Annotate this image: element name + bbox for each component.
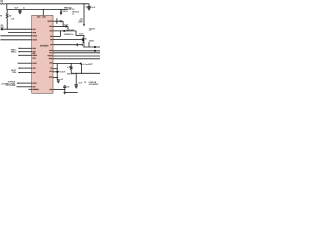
arrow to system load [83,24,85,26]
wire vertical stub [88,42,90,47]
wire top pin drop [43,9,44,10]
resistor R1 (divider from second rail) [6,10,8,14]
svg-text:CLN: CLN [11,19,15,21]
svg-text:x2: x2 [89,30,91,32]
capacitor series CB on BST wire [65,25,67,27]
wire vertical short rail [56,18,58,24]
node dot SW left [60,30,61,31]
svg-text:PINS: PINS [12,72,17,74]
part number U1 [40,45,48,47]
svg-text:4.7k: 4.7k [67,66,70,69]
label FAULT block [11,69,17,74]
wire pin 3 [0,35,31,37]
capacitor series on SW wire [63,30,65,32]
label TO SYSTEM LOAD [78,18,84,23]
capacitor series CSP [94,50,96,52]
wire to FET drain [76,35,84,37]
wire vertical right [81,64,83,74]
wire EQ pin [18,62,32,64]
wire BST drop [62,21,64,26]
capacitor CIN (input cap to gnd) [20,9,21,10]
wire vertical rail mid bottom [56,64,58,80]
wire SW pin [53,30,76,32]
svg-text:LTC4015: LTC4015 [40,44,49,47]
arrow long [18,82,32,84]
resistor RNTC vertical [70,64,72,66]
svg-text:0.47uF: 0.47uF [60,71,65,74]
svg-text:CIN 22uF: CIN 22uF [72,12,79,14]
svg-text:L1 3.3uH: L1 3.3uH [67,29,75,31]
node junction dot at top right corner [83,3,84,4]
svg-text:VOUT: VOUT [79,34,84,36]
wire pin 4 [0,39,31,41]
wire vertical from SW dot down [60,31,62,37]
wire elbow from VIN rail down to second rail [6,4,8,10]
wire TG gate [53,39,82,41]
ground (bottom right cap) [75,86,77,88]
wire DVCC pin [53,77,58,79]
svg-text:SNS: SNS [0,27,4,29]
svg-text:SMBus: SMBus [11,51,17,53]
svg-text:TO: TO [84,82,87,84]
wire SW elbow down to FET row [75,31,77,36]
svg-text:1uF: 1uF [60,79,63,81]
ground (top right) [88,8,91,10]
svg-text:1uF: 1uF [67,86,70,88]
arrow SCL [19,51,31,53]
svg-text:DONE 5B: DONE 5B [89,82,97,84]
svg-text:10uF: 10uF [14,8,18,10]
pin labels column right (smudges) [48,21,53,91]
diode D1 to ground [60,9,61,10]
svg-text:RSNSB 10m: RSNSB 10m [64,34,74,36]
wire BST cap to SW elbow [67,26,69,31]
svg-text:RSNS: RSNS [89,40,94,42]
svg-text:10uF: 10uF [78,83,82,85]
capacitor above gnd node [64,85,66,86]
svg-text:FOR BURST: FOR BURST [89,84,99,86]
wire sense top [83,46,84,47]
arrow charge current indicator [76,43,78,45]
svg-text:100k NTC: 100k NTC [67,74,75,76]
wire BG gate [53,44,82,46]
label SMBus block [11,50,17,54]
svg-text:SMBus: SMBus [11,50,17,52]
caption bottom right [89,82,99,86]
wire below [17,86,32,88]
arrow SDA [19,47,31,49]
wire CSP [53,50,100,52]
capacitor COUT top right [88,4,90,7]
node dots on rail [76,73,77,74]
label TO/FROM SYSTEM block [2,82,16,87]
svg-text:0.1uF: 0.1uF [64,25,68,27]
capacitor marks on NTC wire [79,63,81,65]
arrow SMBALERT [19,54,31,56]
wire INTVCC pin [53,20,60,22]
svg-text:FAULT: FAULT [11,69,16,72]
wire NTC [53,63,82,65]
svg-text:R1: R1 [0,16,2,18]
node dot FET drain [83,35,84,36]
wire corner down to system load arrow [83,4,85,25]
svg-text:OF SYSTEM: OF SYSTEM [6,85,16,87]
svg-text:TO/FROM: TO/FROM [8,82,16,84]
svg-text:x2: x2 [72,13,74,15]
capacitor bottom right to gnd [75,73,77,84]
transistor M2 gate mark [81,44,83,46]
capacitor series INTVCC [59,20,61,22]
wire pin at 36.4 [53,35,61,37]
wire GND pin stub [53,89,65,91]
transistor M1 body diode mark [83,42,84,43]
pin labels column left (smudges) [32,16,45,90]
ground (input cap) [19,12,21,14]
wire CSN [53,52,100,54]
transistor M1 (NFET) [83,36,85,47]
node dot BST [63,26,64,27]
wire CELL [53,58,100,60]
wire into pin VIN (with series cap marks) [0,28,31,30]
capacitor series marks left edge [1,28,3,30]
wire BST pin [53,25,68,27]
svg-text:10uF: 10uF [91,7,95,9]
wire CCP pin [53,71,57,73]
ground (DVCC cap) [57,81,59,83]
svg-text:2x: 2x [23,8,25,10]
wire ground rail right [71,72,100,74]
wire stub bottom left [29,88,32,90]
ground rail bottom [65,91,78,93]
capacitor series sense top [94,46,96,48]
node dot NTC [71,63,72,64]
inductor L1 (input zigzag on VIN line) [0,3,6,5]
ground (main) [63,91,66,93]
arrow fault2 [19,72,31,74]
svg-text:MBRS140: MBRS140 [64,7,72,10]
wire second rail [7,9,68,11]
svg-text:M1: M1 [85,39,87,41]
wire VC pin [53,68,57,70]
capacitor series CCP [56,71,58,73]
IC U1 LTC4015 body [32,15,53,93]
ground (diode) [60,12,62,14]
label top right of FET [89,29,95,33]
capacitor DVCC to gnd [57,79,60,81]
svg-text:L1: L1 [85,7,87,9]
svg-text:+ Li-Ion BATT: + Li-Ion BATT [82,63,93,66]
node junction on VIN_SNS wire [7,29,8,30]
svg-text:10k: 10k [9,15,12,17]
wire BATSENS [53,55,100,57]
svg-text:VIN 12V: VIN 12V [68,9,75,11]
wire VIN top rail [6,3,89,5]
wire pin 2 [8,32,32,34]
node dot SW at BST cap [67,30,68,31]
arrow fault1 [19,67,31,69]
label left edge above [0,25,4,29]
